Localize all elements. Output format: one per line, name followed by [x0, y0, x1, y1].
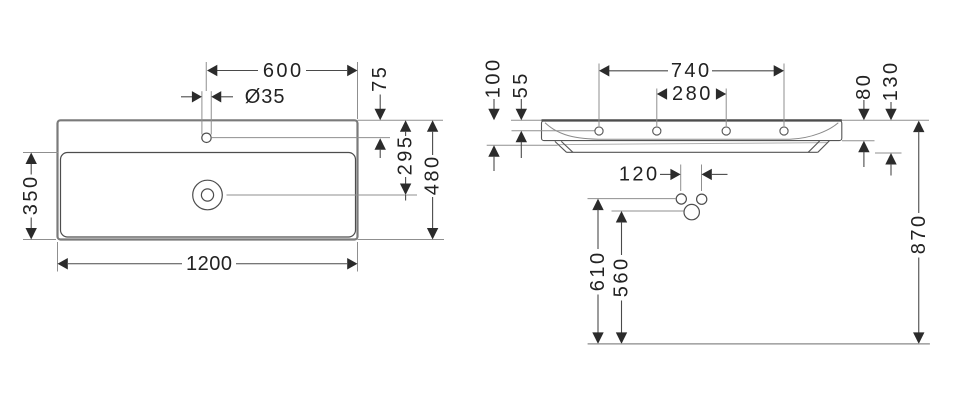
svg-text:480: 480 [422, 154, 444, 195]
dimension 295 line top [405, 131, 407, 136]
dimension diameter 35 arrow pointing right [192, 91, 202, 102]
drain inner circle [201, 189, 213, 201]
dimension 610 arrow down [592, 332, 603, 344]
dimension 560 line top [621, 222, 623, 255]
dimension 120 arrow pointing left [702, 169, 712, 180]
dimension 1200 line [68, 263, 347, 265]
basin slab outline (front view) [542, 121, 842, 141]
svg-text:740: 740 [671, 60, 712, 82]
dimension 870 arrow up [913, 121, 924, 133]
dimension 740 extension line left [598, 64, 600, 127]
dimension 610 arrow up [592, 199, 603, 211]
dimension 295 tail below [405, 195, 407, 201]
pedestal right diagonal 2 [808, 141, 820, 152]
dimension 480 arrow up [427, 120, 438, 132]
dimension 350 arrow up [26, 153, 37, 165]
dimension 350 line [30, 163, 32, 229]
deck holes leader line [512, 130, 595, 132]
dimension 740 arrow right [774, 65, 784, 76]
bowl front lower faint edge [558, 143, 828, 145]
dimension 280 extension line left [656, 89, 658, 127]
bottom edge extension line left [23, 239, 56, 241]
svg-text:610: 610 [587, 250, 609, 291]
deck hole 4 [780, 127, 788, 135]
dimension 130 arrow down [885, 109, 896, 121]
dimension 55 line [520, 99, 522, 110]
dimension 55 arrow down [516, 109, 527, 121]
svg-text:130: 130 [880, 60, 902, 101]
dimension 55 arrow up [516, 131, 527, 143]
dimension 55 tail line [520, 142, 522, 158]
dimension 75 arrow up (below hole line) [375, 138, 386, 150]
dimension 350 arrow down [26, 228, 37, 240]
dimension 75 arrow down [375, 109, 386, 121]
svg-text:295: 295 [394, 135, 416, 176]
faucet hole circle [202, 133, 211, 142]
inner top edge extension line left [23, 152, 58, 154]
pedestal left diagonal 1 [555, 141, 567, 152]
dimension 80 arrow up [858, 141, 869, 153]
faucet center extension line (for 600 dim) [205, 62, 207, 91]
svg-text:120: 120 [619, 164, 660, 186]
dimension 610 reference line [588, 198, 676, 200]
deck hole 1 [595, 127, 603, 135]
dimension 740 line [609, 70, 774, 72]
dimension 100 arrow up [488, 145, 499, 157]
wall reference line (top) [511, 119, 929, 121]
faucet hole leader line to right [211, 137, 390, 139]
drain leader line to right [227, 194, 418, 196]
bowl rim curve [545, 123, 838, 139]
dimension diameter 35 arrow pointing left [211, 91, 221, 102]
pedestal right diagonal 1 [818, 141, 830, 152]
dimension 600 line [217, 70, 347, 72]
dimension 130 tail line [890, 164, 892, 176]
dimension 295 line bottom [405, 177, 407, 184]
dimension 295 arrow up [400, 120, 411, 132]
dimension 120 extension line right [701, 165, 703, 192]
dimension 120 extension line left [680, 165, 682, 192]
dimension 130 arrow up [885, 153, 896, 165]
dimension 280 arrow right [716, 88, 726, 99]
dimension 80 tail line [863, 152, 865, 167]
dimension 80 reference line [842, 140, 875, 142]
dimension 1200 arrow left [58, 258, 68, 269]
dimension 120 leader left [660, 173, 671, 175]
dimension 600 extension line right [357, 62, 359, 119]
deck hole 3 [722, 127, 730, 135]
dimension 100 lower reference line [487, 144, 558, 146]
dimension 1200 extension line right [357, 242, 359, 272]
dimension 75 line [379, 95, 381, 110]
svg-text:560: 560 [611, 256, 633, 297]
svg-text:80: 80 [853, 73, 875, 100]
dimension 80 arrow down [858, 109, 869, 121]
drain outer circle [193, 180, 223, 210]
basin outer rect (top view) [58, 120, 358, 239]
svg-text:75: 75 [369, 65, 391, 92]
svg-text:600: 600 [263, 60, 304, 82]
pedestal left diagonal 2 [561, 141, 573, 152]
svg-text:280: 280 [672, 83, 713, 105]
dimension 600 arrow right [347, 65, 357, 76]
dimension 560 line bottom [621, 301, 623, 334]
dimension diameter 35 leader right [221, 96, 233, 98]
dimension 280 extension line right [725, 89, 727, 127]
dimension diameter 35 leader left [181, 96, 193, 98]
faucet hole tangent extension line right [210, 91, 212, 134]
dimension 560 reference line [612, 210, 684, 212]
dimension 120 leader right [712, 173, 728, 175]
dimension 600 arrow left [207, 65, 217, 76]
dimension 870 arrow down [913, 332, 924, 344]
dimension 560 arrow down [616, 332, 627, 344]
dimension 100 tail line [493, 156, 495, 171]
dimension 80 line [863, 100, 865, 110]
svg-text:1200: 1200 [186, 253, 233, 275]
svg-text:55: 55 [510, 71, 532, 98]
dimension 295 arrow down [400, 184, 411, 196]
dimension 740 extension line right [783, 64, 785, 127]
dimension 1200 arrow right [347, 258, 357, 269]
svg-text:Ø35: Ø35 [245, 86, 286, 108]
basin top edge thick [542, 119, 842, 121]
svg-text:100: 100 [483, 57, 505, 98]
svg-text:350: 350 [20, 174, 42, 215]
dimension 480 line bottom [432, 197, 434, 229]
floor line [588, 343, 930, 345]
dimension 100 line [493, 99, 495, 110]
dimension 1200 extension line left [57, 242, 59, 272]
dimension 280 arrow left [657, 88, 667, 99]
dimension 560 arrow up [616, 211, 627, 223]
siphon hole right [697, 194, 707, 204]
siphon hole left [676, 194, 686, 204]
dimension 610 line bottom [597, 295, 599, 334]
deck hole 2 [653, 127, 661, 135]
dimension 130 line [890, 102, 892, 110]
dimension 610 line top [597, 209, 599, 249]
dimension 100 arrow down [488, 109, 499, 121]
svg-text:870: 870 [908, 213, 930, 254]
dimension 130 reference line [875, 152, 902, 154]
pedestal bottom line [567, 151, 818, 153]
dimension 870 line top [918, 131, 920, 213]
dimension 740 arrow left [599, 65, 609, 76]
drain hole big [684, 204, 699, 219]
dimension 75 tail line below [379, 149, 381, 158]
basin inner bowl rect (top view) [61, 153, 356, 238]
dimension 480 line top [432, 131, 434, 155]
top edge extension line right [358, 119, 444, 121]
dimension 870 line bottom [918, 258, 920, 334]
bottom edge extension line right [358, 239, 445, 241]
faucet hole tangent extension line left [201, 91, 203, 134]
dimension 120 arrow pointing right [670, 169, 680, 180]
dimension 480 arrow down [427, 228, 438, 240]
